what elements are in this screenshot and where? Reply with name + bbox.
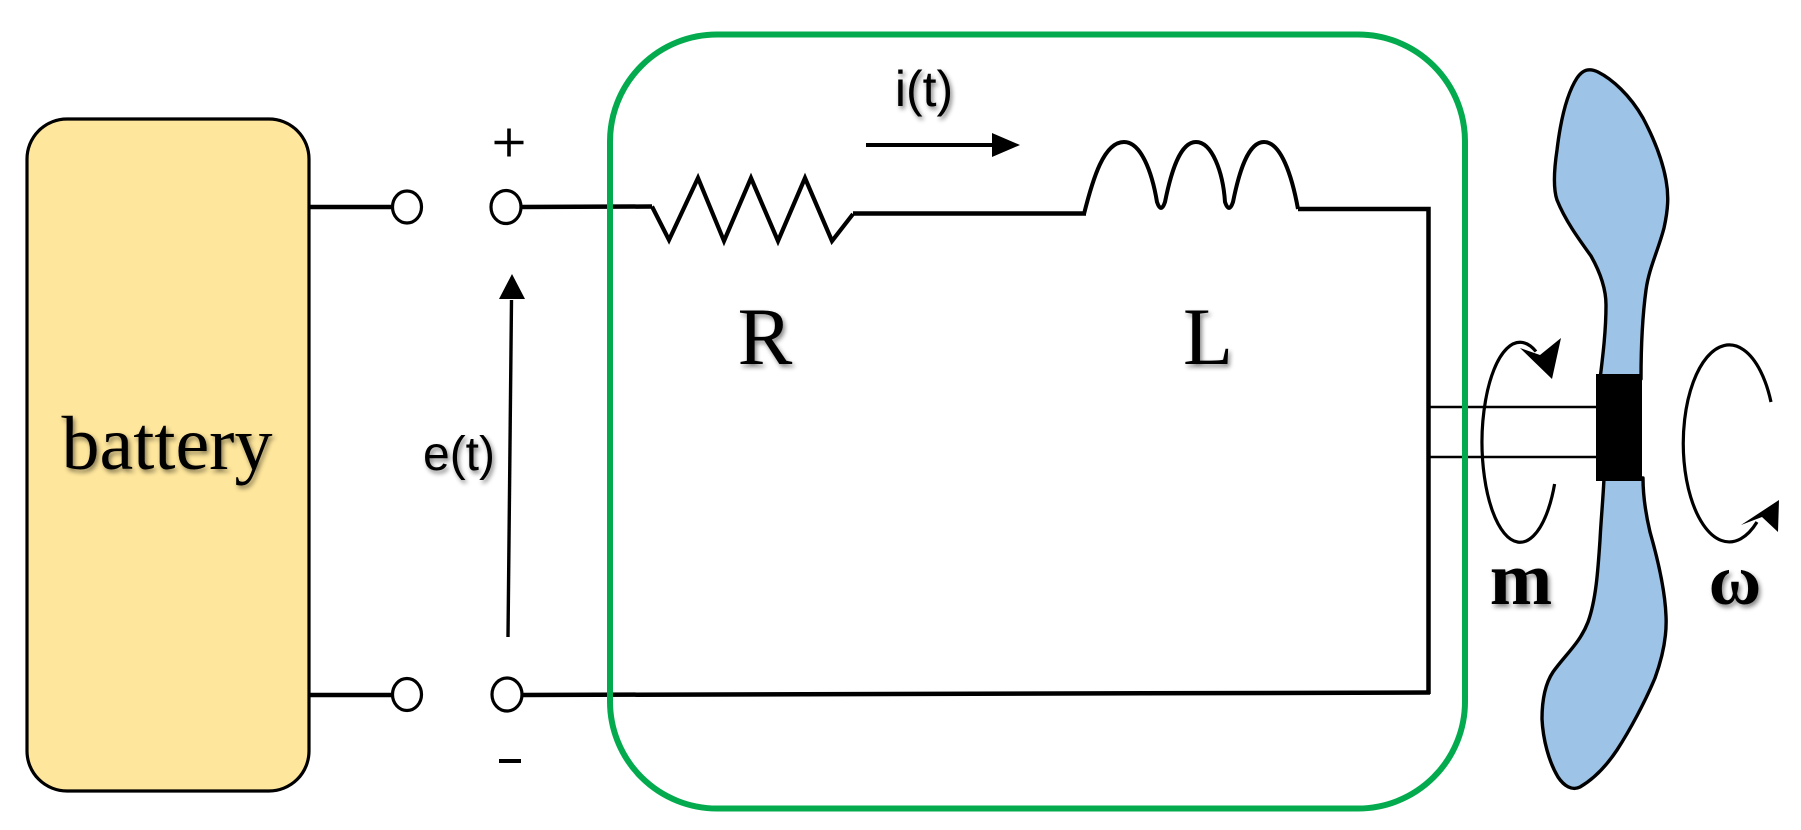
terminal circle top-right (+) [491, 191, 521, 224]
motor hub [1596, 374, 1642, 481]
wire inductor to right corner [1298, 209, 1429, 694]
terminal circle bottom-right (-) [492, 678, 522, 711]
terminal circle top-left [393, 191, 422, 223]
minus label [499, 759, 521, 763]
e(t) arrow [508, 300, 512, 637]
svg-text:e(t): e(t) [423, 428, 495, 481]
svg-text:i(t): i(t) [895, 61, 953, 117]
wire resistor to inductor [853, 211, 1086, 216]
svg-text:R: R [738, 291, 793, 382]
m rotation arrow [1482, 342, 1555, 542]
svg-text:L: L [1183, 291, 1233, 382]
wire + terminal to resistor [521, 204, 652, 209]
terminal circle bottom-left [393, 679, 422, 711]
bottom wire [522, 693, 1430, 696]
battery box [27, 119, 309, 791]
wire battery to bottom-left terminal [309, 693, 392, 698]
green system boundary box [610, 35, 1465, 809]
svg-text:battery: battery [61, 402, 272, 486]
motor shaft [1428, 406, 1598, 409]
propeller blade upper [1554, 70, 1667, 379]
inductor L [1084, 142, 1298, 214]
propeller blade lower [1542, 478, 1666, 788]
plus label [495, 129, 524, 157]
svg-text:m: m [1490, 538, 1552, 621]
svg-text:ω: ω [1709, 540, 1762, 620]
omega rotation arrow [1683, 345, 1771, 542]
wire battery to top-left terminal [309, 205, 392, 210]
resistor R [652, 178, 853, 241]
i(t) current arrow [866, 143, 996, 147]
